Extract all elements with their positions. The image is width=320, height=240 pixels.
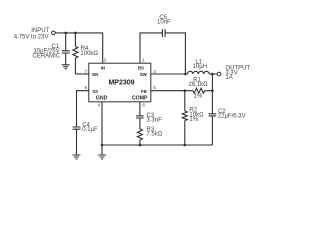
svg-text:GND: GND	[96, 96, 108, 102]
wire SW pin	[151, 73, 188, 75]
wire COMP pin down	[139, 102, 141, 116]
svg-text:7.5kΩ: 7.5kΩ	[146, 131, 162, 137]
svg-text:SS: SS	[92, 89, 98, 94]
resistor R4	[74, 33, 76, 47]
node GND junction	[101, 144, 104, 147]
wire BS to C5	[140, 33, 162, 63]
svg-text:100kΩ: 100kΩ	[80, 51, 98, 57]
svg-text:10µH: 10µH	[193, 64, 207, 70]
wire SS pin to C4	[77, 91, 89, 127]
svg-text:3.3nF: 3.3nF	[146, 117, 162, 123]
ground (below C1)	[62, 65, 70, 69]
wire FB pin	[151, 90, 193, 92]
svg-text:0.1µF: 0.1µF	[82, 127, 98, 133]
wire C5 to SW node	[166, 33, 186, 74]
node C1 junction	[64, 32, 67, 35]
output terminal	[217, 72, 221, 76]
wire EN to IC	[75, 73, 88, 75]
node R3 rail junction	[139, 144, 142, 147]
wire input rail to IN pin	[55, 33, 102, 63]
capacitor C3	[136, 116, 144, 118]
inductor L1	[188, 71, 210, 74]
svg-text:1: 1	[142, 57, 145, 63]
ground rail	[102, 144, 212, 146]
svg-text:EN: EN	[92, 72, 98, 77]
resistor R3	[137, 129, 142, 140]
capacitor C1	[65, 33, 67, 51]
capacitor C4	[73, 127, 81, 129]
svg-text:2: 2	[104, 57, 107, 63]
capacitor C2	[209, 114, 217, 116]
svg-text:6: 6	[142, 103, 145, 109]
node SW junction	[184, 73, 187, 76]
svg-text:MP2309: MP2309	[108, 80, 134, 87]
wire R1 to output node	[205, 90, 213, 92]
node R2 rail junction	[184, 144, 187, 147]
IC MP2309 (buck regulator)	[89, 63, 151, 102]
capacitor C5	[162, 29, 165, 37]
svg-text:26.1kΩ: 26.1kΩ	[189, 82, 209, 88]
node R1/C2 junction	[211, 89, 214, 92]
svg-text:IN: IN	[101, 66, 105, 71]
wire GND pin down	[101, 102, 103, 155]
ground (below GND pin)	[98, 155, 106, 159]
svg-text:FB: FB	[141, 89, 147, 94]
svg-text:COMP: COMP	[132, 96, 148, 102]
svg-text:10nF: 10nF	[157, 20, 171, 26]
svg-text:7: 7	[85, 69, 88, 75]
svg-text:BS: BS	[138, 66, 144, 71]
resistor R2	[184, 91, 186, 111]
svg-text:4.75V to 23V: 4.75V to 23V	[14, 34, 49, 40]
svg-text:1A: 1A	[225, 75, 232, 81]
svg-text:1%: 1%	[194, 94, 203, 100]
wire output node down	[211, 74, 213, 114]
ground (below C4)	[73, 155, 81, 159]
svg-text:SW: SW	[140, 72, 148, 77]
input terminal	[52, 31, 56, 35]
svg-text:CERAMIC: CERAMIC	[33, 53, 61, 59]
resistor R1	[193, 88, 205, 93]
svg-text:1%: 1%	[189, 117, 198, 123]
node FB/R2 junction	[184, 89, 187, 92]
node output junction	[211, 73, 214, 76]
wire L1 to output	[209, 73, 217, 75]
svg-text:22µF/6.3V: 22µF/6.3V	[218, 113, 246, 119]
svg-text:4: 4	[98, 103, 101, 109]
node R4 junction	[74, 32, 77, 35]
svg-text:INPUT: INPUT	[31, 28, 49, 34]
